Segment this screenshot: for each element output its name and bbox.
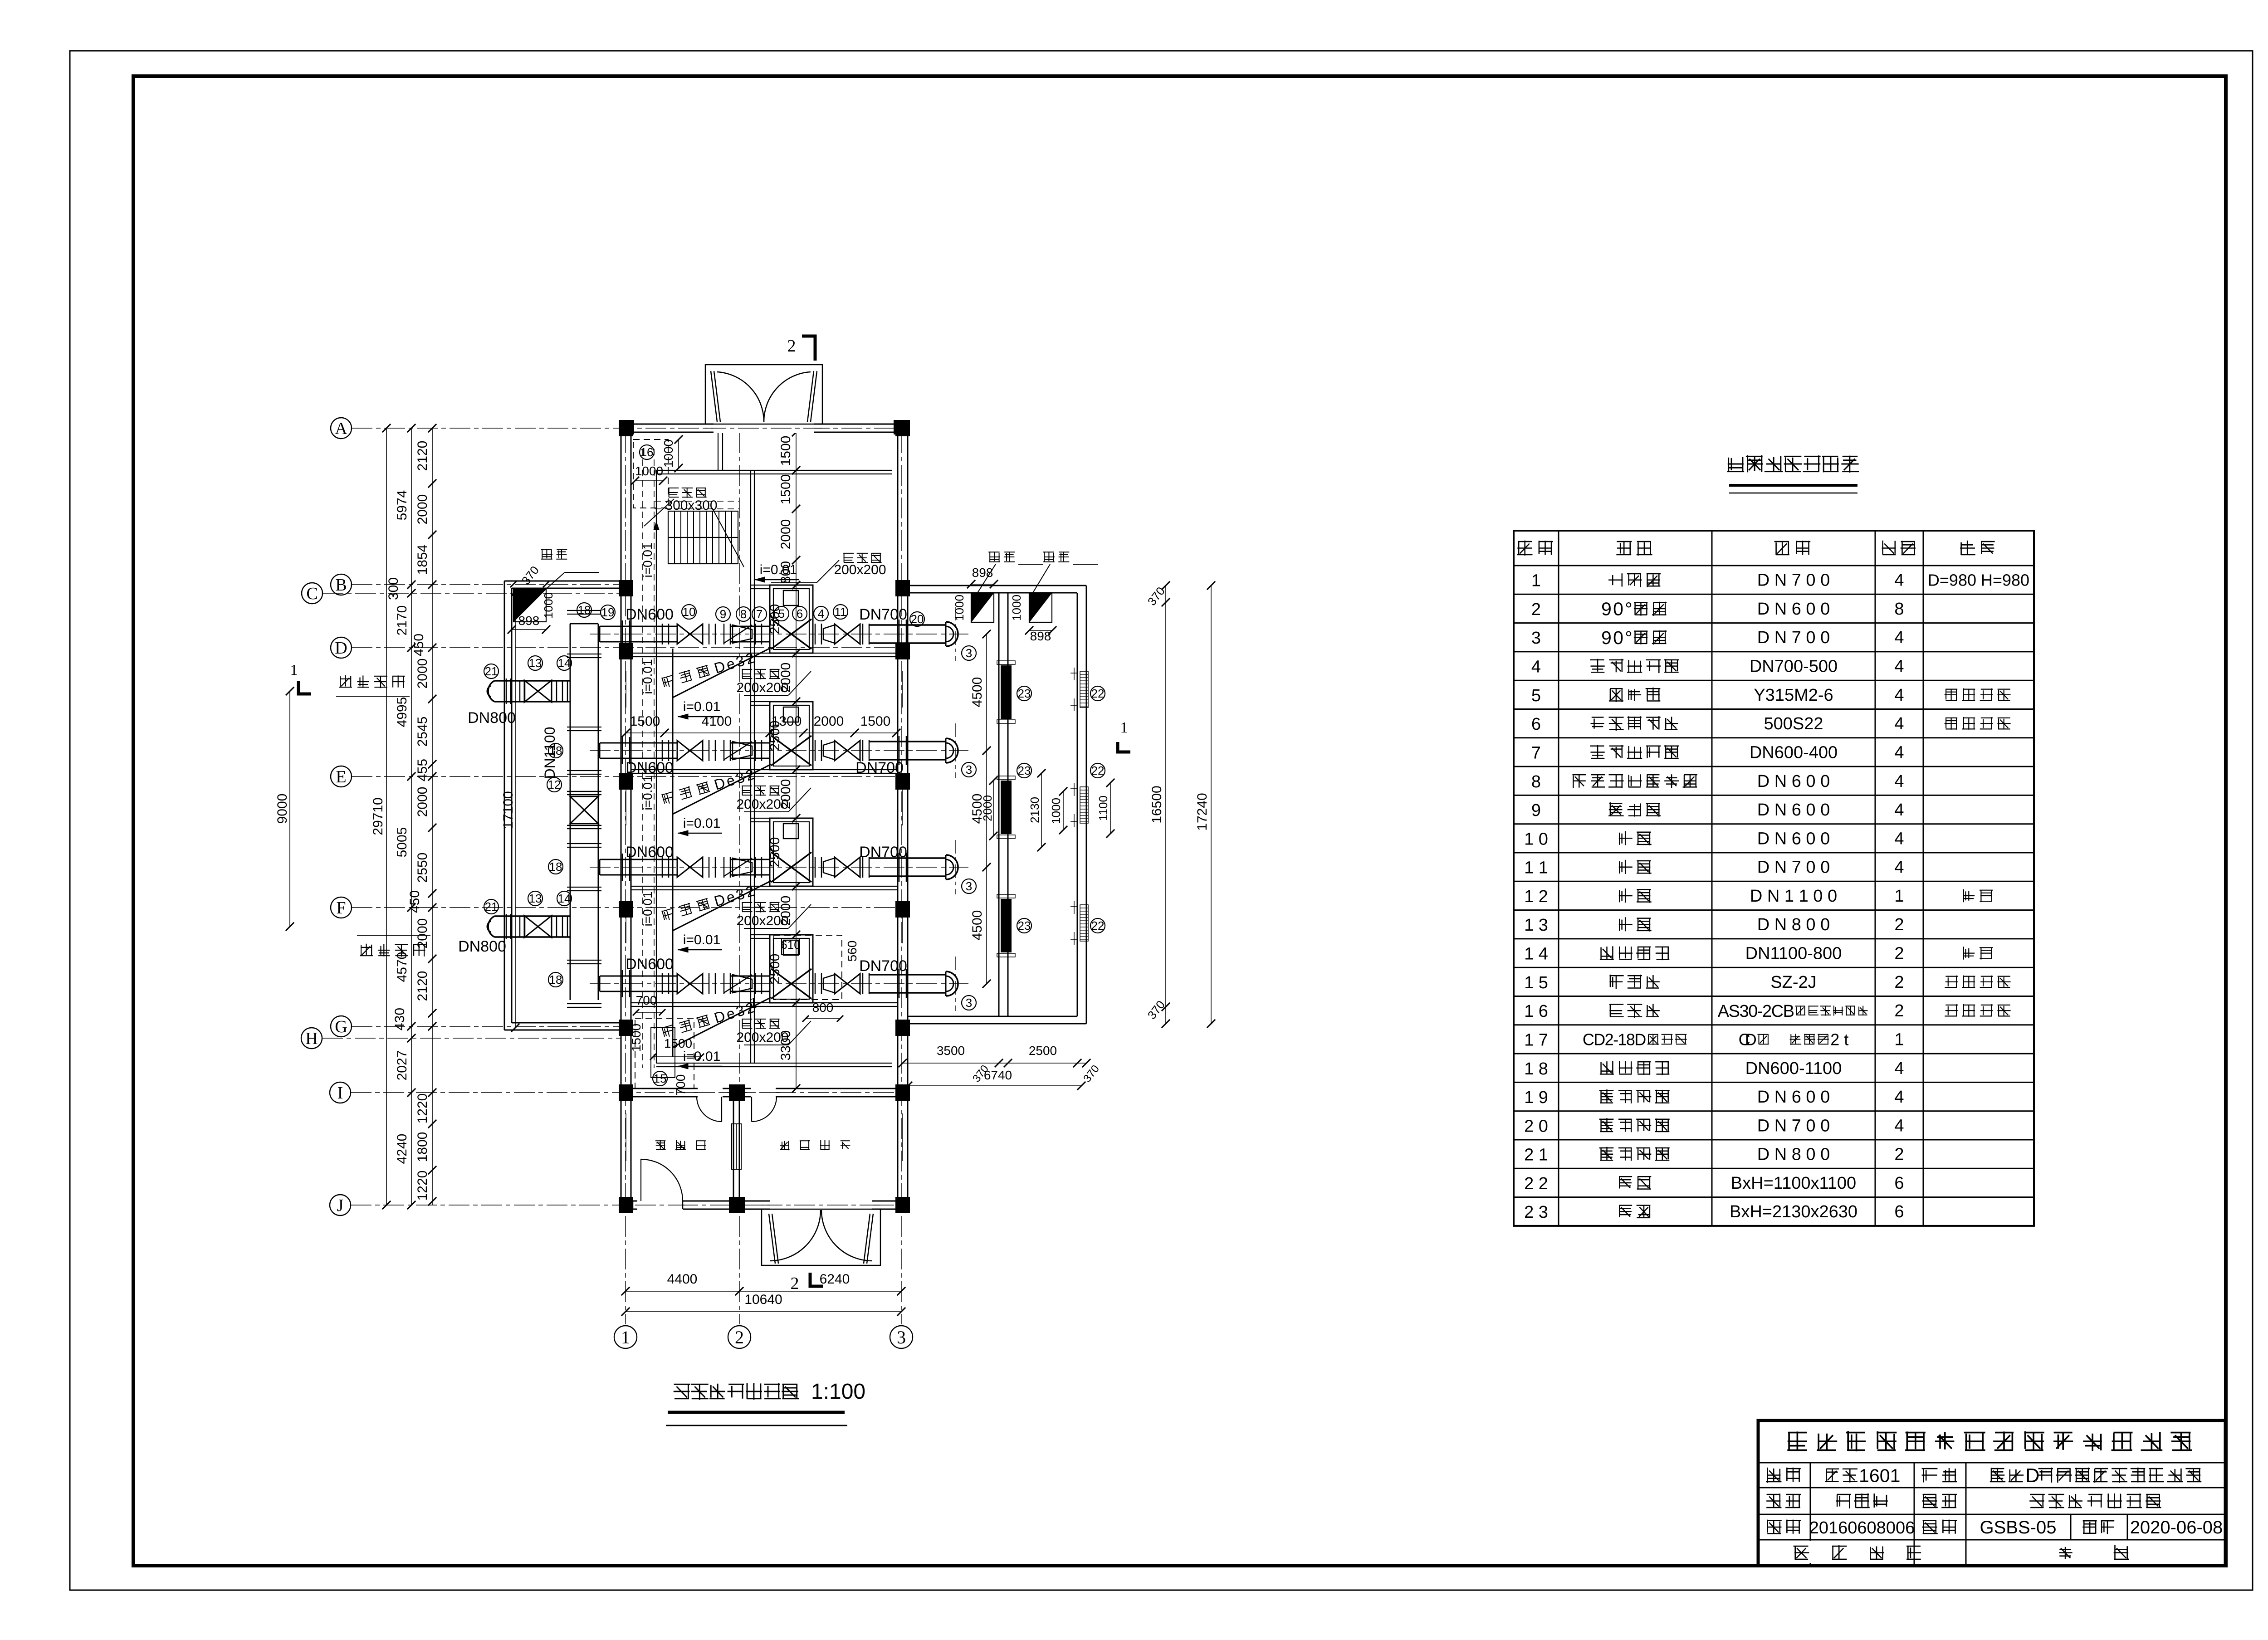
svg-text:4: 4 — [1894, 571, 1904, 590]
svg-text:J: J — [337, 1196, 344, 1215]
suction bell line 2 — [945, 738, 947, 763]
grid line F — [352, 907, 908, 908]
vacuum pipe line 1 — [673, 648, 771, 698]
vacuum pipe line 2 — [673, 764, 771, 814]
discharge pipe DN700 line 2 — [869, 741, 946, 742]
label circle 8 — [736, 607, 751, 621]
svg-text:DN600: DN600 — [626, 956, 674, 973]
svg-text:1100: 1100 — [1096, 796, 1110, 821]
svg-text:6: 6 — [1894, 1174, 1904, 1193]
label circle 18 — [548, 859, 563, 874]
grid bubble 1 — [614, 1326, 637, 1348]
svg-text:1: 1 — [621, 1327, 630, 1347]
svg-text:i=0.01: i=0.01 — [683, 932, 721, 947]
svg-text:6: 6 — [797, 607, 803, 620]
svg-text:D N 6 0 0: D N 6 0 0 — [1757, 800, 1830, 820]
pump bay divider wall — [631, 653, 898, 654]
svg-text:16500: 16500 — [1149, 786, 1164, 823]
svg-text:15: 15 — [654, 1072, 667, 1085]
svg-text:4: 4 — [1894, 1116, 1904, 1135]
svg-text:9: 9 — [720, 607, 726, 621]
svg-text:22: 22 — [1091, 687, 1105, 700]
pump X line 1 — [771, 619, 811, 649]
label circle 7 — [752, 607, 767, 621]
svg-text:2120: 2120 — [415, 441, 430, 471]
label circle 5 — [774, 606, 789, 621]
svg-text:4100: 4100 — [702, 714, 732, 729]
svg-text:2130: 2130 — [1028, 797, 1041, 823]
svg-text:4: 4 — [1531, 658, 1541, 677]
svg-text:DN600-1100: DN600-1100 — [1745, 1059, 1842, 1078]
svg-text:1500: 1500 — [629, 1024, 643, 1052]
svg-text:D N 8 0 0: D N 8 0 0 — [1757, 1145, 1830, 1164]
svg-text:898: 898 — [972, 566, 993, 580]
svg-text:5005: 5005 — [395, 827, 410, 858]
svg-text:DN800: DN800 — [458, 938, 506, 955]
label circle 20 — [910, 612, 924, 626]
svg-text:700: 700 — [674, 1074, 688, 1096]
header tee flanges — [567, 960, 601, 961]
svg-text:4500: 4500 — [970, 910, 985, 941]
wall at grid I — [621, 1088, 908, 1089]
suction bell line 4 — [945, 971, 947, 996]
grid line A — [352, 428, 908, 429]
grid bubble B — [331, 574, 352, 595]
svg-text:1 8: 1 8 — [1524, 1059, 1548, 1079]
svg-text:200x200: 200x200 — [834, 562, 886, 577]
label circle 14 — [557, 891, 572, 906]
svg-text:4: 4 — [1894, 686, 1904, 705]
svg-text:430: 430 — [392, 1008, 407, 1030]
right dim 17240 — [1211, 586, 1212, 1024]
valve 13 DN800 — [524, 680, 538, 702]
svg-text:1: 1 — [1120, 719, 1128, 736]
label circle 15 — [653, 1071, 667, 1086]
grid bubble 3 — [890, 1326, 913, 1348]
drain pump 16 dashed box — [633, 439, 668, 508]
svg-text:18: 18 — [549, 744, 562, 757]
label circle 18 — [548, 743, 563, 758]
svg-text:500S22: 500S22 — [1764, 714, 1823, 733]
vacuum pipe line 4 — [673, 997, 771, 1047]
pump sump box line 2 — [770, 702, 813, 770]
gate valve 11 line 1 — [835, 624, 847, 644]
svg-text:1854: 1854 — [415, 545, 430, 575]
svg-text:2: 2 — [791, 1274, 799, 1293]
svg-text:4: 4 — [1894, 800, 1904, 820]
wall casing 20 line 2 — [899, 736, 900, 765]
svg-text:2: 2 — [1894, 973, 1904, 992]
svg-text:4400: 4400 — [667, 1272, 698, 1287]
svg-text:700: 700 — [636, 993, 657, 1007]
grid bubble H — [301, 1028, 322, 1049]
drain labels line 3 — [742, 902, 780, 912]
svg-text:1 2: 1 2 — [1524, 887, 1548, 906]
casing 21 — [506, 914, 507, 939]
svg-text:D N 7 0 0: D N 7 0 0 — [1757, 571, 1830, 590]
svg-text:1 9: 1 9 — [1524, 1088, 1548, 1107]
svg-text:1500: 1500 — [860, 714, 891, 729]
svg-text:4: 4 — [1894, 714, 1904, 733]
svg-text:4: 4 — [1894, 858, 1904, 877]
svg-text:1000: 1000 — [1049, 798, 1063, 824]
grid bubble G — [331, 1016, 352, 1037]
label circle 21 — [484, 664, 499, 678]
svg-text:2000: 2000 — [415, 918, 430, 949]
grid line 3 — [901, 432, 902, 1324]
svg-text:i=0.01: i=0.01 — [683, 816, 721, 831]
pump line 1 centerline — [590, 634, 968, 635]
svg-text:D=980 H=980: D=980 H=980 — [1928, 571, 2029, 590]
grid line D — [352, 647, 908, 648]
gate valve 11 line 3 — [835, 857, 847, 877]
discharge pipe DN700 line 1 — [869, 624, 946, 626]
header tee flanges — [567, 727, 601, 727]
annex west exterior door — [637, 1200, 683, 1210]
svg-text:D N 6 0 0: D N 6 0 0 — [1757, 772, 1830, 791]
svg-text:DN700: DN700 — [859, 606, 907, 623]
svg-text:2120: 2120 — [415, 971, 430, 1001]
svg-text:1 1: 1 1 — [1524, 859, 1548, 878]
svg-text:CD2-18D: CD2-18D — [1583, 1030, 1646, 1049]
svg-text:A: A — [335, 419, 347, 438]
wall casing 19 line 1 — [622, 620, 623, 648]
svg-text:2 0: 2 0 — [1524, 1117, 1548, 1136]
grid bubble F — [331, 897, 352, 918]
svg-text:8: 8 — [740, 607, 747, 621]
svg-text:DN600: DN600 — [626, 606, 674, 623]
svg-text:18: 18 — [578, 603, 591, 617]
svg-text:560: 560 — [845, 941, 859, 962]
svg-text:Y315M2-6: Y315M2-6 — [1754, 686, 1833, 705]
svg-text:1800: 1800 — [415, 1132, 430, 1162]
pump X line 3 — [771, 852, 811, 882]
svg-text:8: 8 — [1894, 600, 1904, 619]
vacuum pump 15 dashed box — [635, 1018, 694, 1088]
svg-text:6740: 6740 — [984, 1068, 1012, 1082]
svg-text:4500: 4500 — [970, 677, 985, 708]
label circle 3 — [962, 646, 976, 660]
grid bubble I — [330, 1082, 351, 1103]
discharge fittings line 3 — [815, 857, 816, 878]
svg-text:SZ-2J: SZ-2J — [1770, 973, 1816, 992]
stairs — [668, 511, 738, 564]
svg-text:3500: 3500 — [937, 1044, 965, 1058]
label circle 10 — [682, 605, 696, 619]
svg-text:4: 4 — [1894, 829, 1904, 848]
svg-text:5974: 5974 — [395, 490, 410, 521]
svg-text:2500: 2500 — [767, 721, 782, 751]
discharge fittings line 2 — [815, 740, 816, 761]
svg-text:455: 455 — [415, 759, 430, 781]
svg-text:9000: 9000 — [275, 794, 290, 824]
svg-text:i=0.01: i=0.01 — [640, 775, 655, 810]
svg-text:20160608006: 20160608006 — [1809, 1518, 1915, 1537]
svg-text:i=0.01: i=0.01 — [640, 891, 655, 926]
drain labels line 4 — [742, 1019, 780, 1029]
svg-text:2000: 2000 — [981, 795, 994, 821]
valve 13 DN800 — [524, 916, 538, 937]
partition window — [732, 1124, 741, 1169]
DN800 outlet pipe 2 — [494, 915, 570, 917]
svg-text:20: 20 — [911, 612, 924, 626]
valve 12 DN1100 — [570, 796, 598, 810]
check valve 9 / joints line 4 — [709, 973, 710, 994]
svg-text:2000: 2000 — [778, 896, 793, 926]
grid line 2 — [739, 432, 740, 1324]
svg-text:i=0.01: i=0.01 — [683, 699, 721, 714]
svg-text:F: F — [336, 898, 346, 918]
label circle 18 — [548, 972, 563, 987]
wall casing 20 line 1 — [899, 620, 900, 649]
svg-text:D: D — [2025, 1465, 2039, 1487]
svg-text:450: 450 — [411, 634, 426, 656]
svg-text:10640: 10640 — [744, 1292, 782, 1307]
svg-text:23: 23 — [1018, 764, 1031, 777]
svg-text:C: C — [306, 584, 318, 603]
svg-text:DN700-500: DN700-500 — [1750, 657, 1838, 676]
gate valve 11 line 2 — [835, 741, 847, 761]
discharge fittings line 1 — [815, 624, 816, 644]
suction pipe DN600 line 1 — [600, 626, 677, 627]
svg-text:1: 1 — [290, 662, 298, 678]
pump X line 4 — [771, 969, 811, 999]
svg-text:1000: 1000 — [953, 595, 966, 621]
svg-text:3300: 3300 — [778, 1030, 793, 1061]
svg-text:1500: 1500 — [778, 474, 793, 505]
label circle 23 — [1017, 686, 1031, 701]
bottom double door — [770, 1200, 872, 1210]
svg-text:2170: 2170 — [395, 605, 410, 636]
label circle 4 — [814, 606, 828, 621]
label circle 3 — [962, 762, 976, 777]
suction bay 4500 dim chain — [986, 634, 987, 984]
label circle 16 — [640, 445, 654, 459]
wall casing 19 line 2 — [622, 737, 623, 764]
label circle 11 — [833, 605, 848, 619]
svg-text:3: 3 — [966, 763, 972, 776]
svg-text:2000: 2000 — [778, 779, 793, 810]
suction bell line 1 — [945, 622, 947, 646]
svg-text:800: 800 — [812, 1001, 834, 1015]
svg-text:GSBS-05: GSBS-05 — [1980, 1518, 2057, 1537]
svg-text:1000: 1000 — [1010, 595, 1023, 621]
label circle 18 — [577, 603, 591, 617]
svg-text:1 3: 1 3 — [1524, 916, 1548, 935]
label circle 23 — [1017, 763, 1031, 778]
tee 14 — [562, 916, 563, 937]
label circle 23 — [1017, 918, 1031, 933]
svg-text:2000: 2000 — [778, 663, 793, 693]
svg-text:2027: 2027 — [395, 1050, 410, 1081]
manholes suction bay — [971, 593, 994, 622]
wall casing 19 line 3 — [622, 854, 623, 881]
svg-text:2020-06-08: 2020-06-08 — [2130, 1518, 2223, 1537]
vacuum pipe line 3 — [673, 881, 771, 931]
label circle 22 — [1090, 918, 1105, 933]
svg-text:2: 2 — [1531, 600, 1541, 619]
svg-text:D N 7 0 0: D N 7 0 0 — [1757, 1116, 1830, 1135]
svg-text:D N 1 1 0 0: D N 1 1 0 0 — [1750, 887, 1837, 906]
stair hall wall — [718, 432, 719, 470]
svg-text:i=0.01: i=0.01 — [640, 542, 655, 577]
header tee flanges — [567, 843, 601, 844]
svg-text:2500: 2500 — [1029, 1044, 1057, 1058]
pump bay divider wall — [631, 1002, 898, 1003]
pump sump box line 3 — [770, 818, 813, 886]
annex interior doors — [698, 1088, 723, 1098]
svg-text:6240: 6240 — [820, 1272, 850, 1287]
svg-text:450: 450 — [407, 890, 422, 913]
svg-text:14: 14 — [558, 656, 571, 670]
svg-text:4: 4 — [1894, 628, 1904, 647]
discharge pipe DN700 line 4 — [869, 974, 946, 976]
svg-text:2500: 2500 — [767, 954, 782, 984]
svg-text:4240: 4240 — [395, 1134, 410, 1164]
svg-text:2: 2 — [1894, 915, 1904, 934]
svg-text:18: 18 — [549, 973, 562, 986]
label circle 19 — [601, 605, 615, 620]
svg-text:BxH=2130x2630: BxH=2130x2630 — [1730, 1202, 1857, 1221]
pump line 3 centerline — [590, 867, 968, 868]
screen dims — [1041, 773, 1042, 847]
svg-text:7: 7 — [1531, 744, 1541, 763]
svg-text:2000: 2000 — [415, 787, 430, 817]
svg-text:DN800: DN800 — [468, 709, 516, 727]
svg-text:D N 6 0 0: D N 6 0 0 — [1757, 600, 1830, 619]
label circle 21 — [484, 899, 499, 914]
gates 23 (black) — [1001, 665, 1012, 719]
casing 21 — [506, 678, 507, 704]
DN800 outlet pipe 1 — [494, 680, 570, 682]
grid line G — [352, 1026, 621, 1027]
svg-text:H: H — [305, 1029, 318, 1048]
svg-text:17240: 17240 — [1195, 793, 1210, 830]
svg-text:21: 21 — [485, 664, 498, 678]
svg-text:13: 13 — [529, 892, 542, 905]
grid bubble D — [331, 637, 352, 658]
vertical dim line x=1755 — [796, 432, 797, 1088]
svg-text:4: 4 — [1894, 772, 1904, 791]
window mid-lines in walls — [626, 671, 626, 708]
check valve 9 / joints line 2 — [709, 740, 710, 761]
drain labels line 2 — [742, 786, 780, 796]
suction pipe DN600 line 3 — [600, 859, 677, 860]
table header row — [1517, 541, 1553, 556]
svg-text:3: 3 — [1531, 629, 1541, 648]
svg-text:2000: 2000 — [415, 659, 430, 689]
vacuum header vertical — [672, 649, 674, 1057]
svg-text:29710: 29710 — [371, 797, 386, 835]
grid line J — [351, 1205, 908, 1206]
svg-text:2550: 2550 — [415, 853, 430, 883]
dims near 16 — [678, 439, 679, 468]
drain labels line 1 — [742, 669, 780, 679]
pump bay divider wall — [631, 886, 898, 887]
label circle 12 — [547, 777, 562, 792]
west outlet chamber walls — [504, 581, 505, 1030]
svg-text:23: 23 — [1018, 919, 1031, 932]
svg-text:6: 6 — [1894, 1202, 1904, 1221]
room labels — [655, 1140, 706, 1151]
dim chain x=953 — [432, 428, 433, 1205]
svg-text:i=0.01: i=0.01 — [760, 562, 797, 577]
title block frame — [1758, 1420, 2225, 1566]
svg-text:3: 3 — [966, 996, 972, 1010]
annex partition wall — [733, 1097, 734, 1201]
svg-text:3: 3 — [966, 646, 972, 660]
grid bubble 2 — [728, 1326, 751, 1348]
svg-text:E: E — [336, 767, 346, 786]
svg-text:13: 13 — [529, 656, 542, 670]
title block texts — [1787, 1431, 2192, 1451]
pump sump box line 1 — [770, 585, 813, 653]
check valve 9 / joints line 3 — [709, 857, 710, 878]
svg-text:9: 9 — [1531, 801, 1541, 820]
black wall columns — [619, 420, 633, 436]
suction pipe DN600 line 4 — [600, 976, 677, 977]
grid bubble J — [330, 1195, 351, 1215]
svg-text:300: 300 — [386, 577, 401, 600]
check valve 9 / joints line 1 — [709, 624, 710, 644]
label circle 6 — [792, 606, 807, 621]
screens 22 (hatched) — [1080, 671, 1088, 708]
dim chain x=907 — [411, 428, 412, 1205]
label circle 14 — [557, 656, 572, 670]
gate dim 2000 — [993, 781, 994, 836]
svg-text:21: 21 — [485, 900, 498, 913]
svg-text:DN1100-800: DN1100-800 — [1745, 944, 1842, 963]
svg-text:90°: 90° — [1601, 599, 1633, 620]
svg-text:1500: 1500 — [778, 436, 793, 466]
svg-text:4: 4 — [1894, 1088, 1904, 1107]
svg-text:5: 5 — [1531, 686, 1541, 705]
pump line 2 centerline — [590, 750, 968, 751]
svg-text:1000: 1000 — [661, 439, 675, 468]
top bay drain labels — [843, 553, 881, 563]
caption 取水泵站平面图 1:100 — [674, 1383, 799, 1400]
svg-text:2500: 2500 — [767, 837, 782, 868]
svg-text:7: 7 — [756, 607, 763, 621]
wall casing 19 line 4 — [622, 970, 623, 997]
right structure bottom dims — [903, 1063, 1086, 1064]
svg-text:23: 23 — [1018, 687, 1031, 700]
DN1100 header pipe — [570, 624, 571, 1000]
svg-text:3: 3 — [897, 1327, 906, 1347]
svg-text:DN600: DN600 — [626, 759, 674, 776]
line2 dim chain 1500/4100/1300/2000/1500 — [626, 732, 896, 733]
svg-text:22: 22 — [1091, 764, 1105, 777]
svg-text:2000: 2000 — [814, 714, 844, 729]
suction pipe DN600 line 2 — [600, 742, 677, 744]
grid line C — [323, 593, 621, 594]
svg-text:DN600-400: DN600-400 — [1750, 743, 1838, 762]
svg-text:2 2: 2 2 — [1524, 1174, 1548, 1193]
grid line I — [351, 1092, 908, 1093]
svg-text:CD: CD — [1739, 1030, 1757, 1049]
svg-text:10: 10 — [683, 605, 696, 619]
svg-text:DN700: DN700 — [859, 844, 907, 861]
svg-text:4: 4 — [1894, 1059, 1904, 1078]
svg-text:BxH=1100x1100: BxH=1100x1100 — [1731, 1174, 1856, 1193]
west drain dashed lines — [642, 449, 643, 1068]
label circle 22 — [1090, 686, 1105, 701]
svg-text:1 5: 1 5 — [1524, 973, 1548, 992]
label circle 9 — [716, 607, 730, 621]
svg-text:90°: 90° — [1601, 627, 1633, 648]
svg-text:D N 6 0 0: D N 6 0 0 — [1757, 1088, 1830, 1107]
grid line 1 — [625, 432, 626, 1324]
